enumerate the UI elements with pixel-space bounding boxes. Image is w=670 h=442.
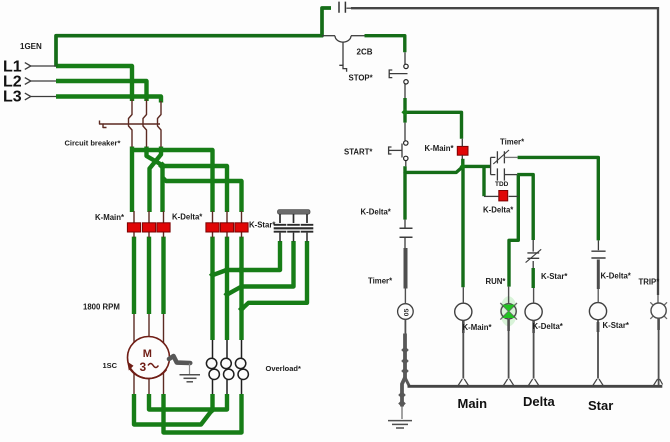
svg-text:Star: Star <box>588 398 613 413</box>
svg-text:2CB: 2CB <box>357 48 373 57</box>
svg-text:K-Star*: K-Star* <box>249 221 276 230</box>
svg-text:05: 05 <box>403 308 410 316</box>
svg-text:K-Delta*: K-Delta* <box>361 207 392 216</box>
svg-text:3: 3 <box>140 360 147 374</box>
svg-text:1GEN: 1GEN <box>20 42 42 51</box>
svg-text:Timer*: Timer* <box>500 137 525 146</box>
svg-text:K-Delta*: K-Delta* <box>533 322 564 331</box>
svg-text:Overload*: Overload* <box>266 364 302 373</box>
svg-text:K-Delta*: K-Delta* <box>601 271 632 280</box>
svg-text:Timer*: Timer* <box>368 276 393 285</box>
svg-text:RUN*: RUN* <box>486 277 507 286</box>
svg-text:TDD: TDD <box>495 181 509 188</box>
svg-text:K-Main*: K-Main* <box>463 323 493 332</box>
svg-text:STOP*: STOP* <box>349 74 374 83</box>
svg-text:Main: Main <box>458 396 488 411</box>
svg-text:K-Delta*: K-Delta* <box>483 206 514 215</box>
svg-text:K-Star*: K-Star* <box>603 321 630 330</box>
svg-text:M: M <box>143 348 152 360</box>
svg-text:K-Star*: K-Star* <box>541 272 568 281</box>
svg-text:K-Main*: K-Main* <box>95 213 125 222</box>
svg-text:K-Delta*: K-Delta* <box>172 213 203 222</box>
svg-text:1800 RPM: 1800 RPM <box>83 303 120 312</box>
svg-text:START*: START* <box>344 148 373 157</box>
svg-text:L3: L3 <box>3 89 22 106</box>
svg-text:Delta: Delta <box>523 394 556 409</box>
svg-text:1SC: 1SC <box>103 361 118 370</box>
svg-text:TRIP*: TRIP* <box>639 278 661 287</box>
svg-text:K-Main*: K-Main* <box>425 144 455 153</box>
svg-text:Circuit breaker*: Circuit breaker* <box>65 139 121 148</box>
